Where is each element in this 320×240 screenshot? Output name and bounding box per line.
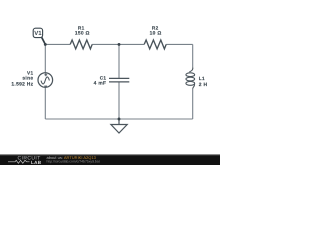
watermark logo zigzag [8, 160, 30, 163]
svg-text:sine: sine [22, 76, 33, 82]
wire bottom rail [45, 118, 192, 120]
wire capacitor upper lead [118, 44, 120, 78]
wire right vertical lower (L1 to bottom rail) [192, 89, 194, 119]
svg-text:R2: R2 [152, 25, 159, 30]
svg-text:4 mF: 4 mF [94, 81, 107, 87]
svg-text:V1: V1 [27, 70, 33, 75]
wire top-middle segment (R1 to R2) [92, 43, 144, 45]
svg-text:R1: R1 [78, 25, 85, 30]
wire capacitor lower lead [118, 82, 120, 119]
svg-text:2 H: 2 H [199, 82, 208, 88]
watermark bar [0, 155, 220, 165]
node junction dot (ground / bottom rail) [118, 118, 121, 121]
svg-text:LAB: LAB [31, 160, 42, 165]
inductor L1 [186, 67, 195, 88]
voltage source V1 [38, 73, 53, 88]
wire left vertical upper (node to V1 source) [44, 44, 46, 72]
svg-text:C1: C1 [100, 75, 107, 80]
svg-text:L1: L1 [199, 76, 205, 81]
resistor R1 [70, 40, 92, 49]
resistor R2 [144, 40, 166, 49]
node junction dot (C1 / top rail) [118, 43, 121, 46]
ground [111, 119, 127, 133]
voltmeter flag V1 [33, 28, 47, 46]
svg-text:1.592 Hz: 1.592 Hz [11, 81, 33, 87]
svg-text:10 Ω: 10 Ω [150, 31, 162, 37]
wire top-left segment (node to R1) [45, 43, 70, 45]
wire top-right segment (R2 to corner) [166, 43, 193, 45]
svg-text:150 Ω: 150 Ω [75, 31, 90, 37]
capacitor C1 [109, 78, 129, 82]
wire right vertical upper (corner to L1) [192, 44, 194, 67]
wire left vertical lower (V1 source to bottom rail) [44, 87, 46, 119]
svg-text:http://circuitlab.com/c/74b75x: http://circuitlab.com/c/74b75xy9.bat [47, 160, 100, 164]
svg-text:V1: V1 [34, 30, 42, 37]
